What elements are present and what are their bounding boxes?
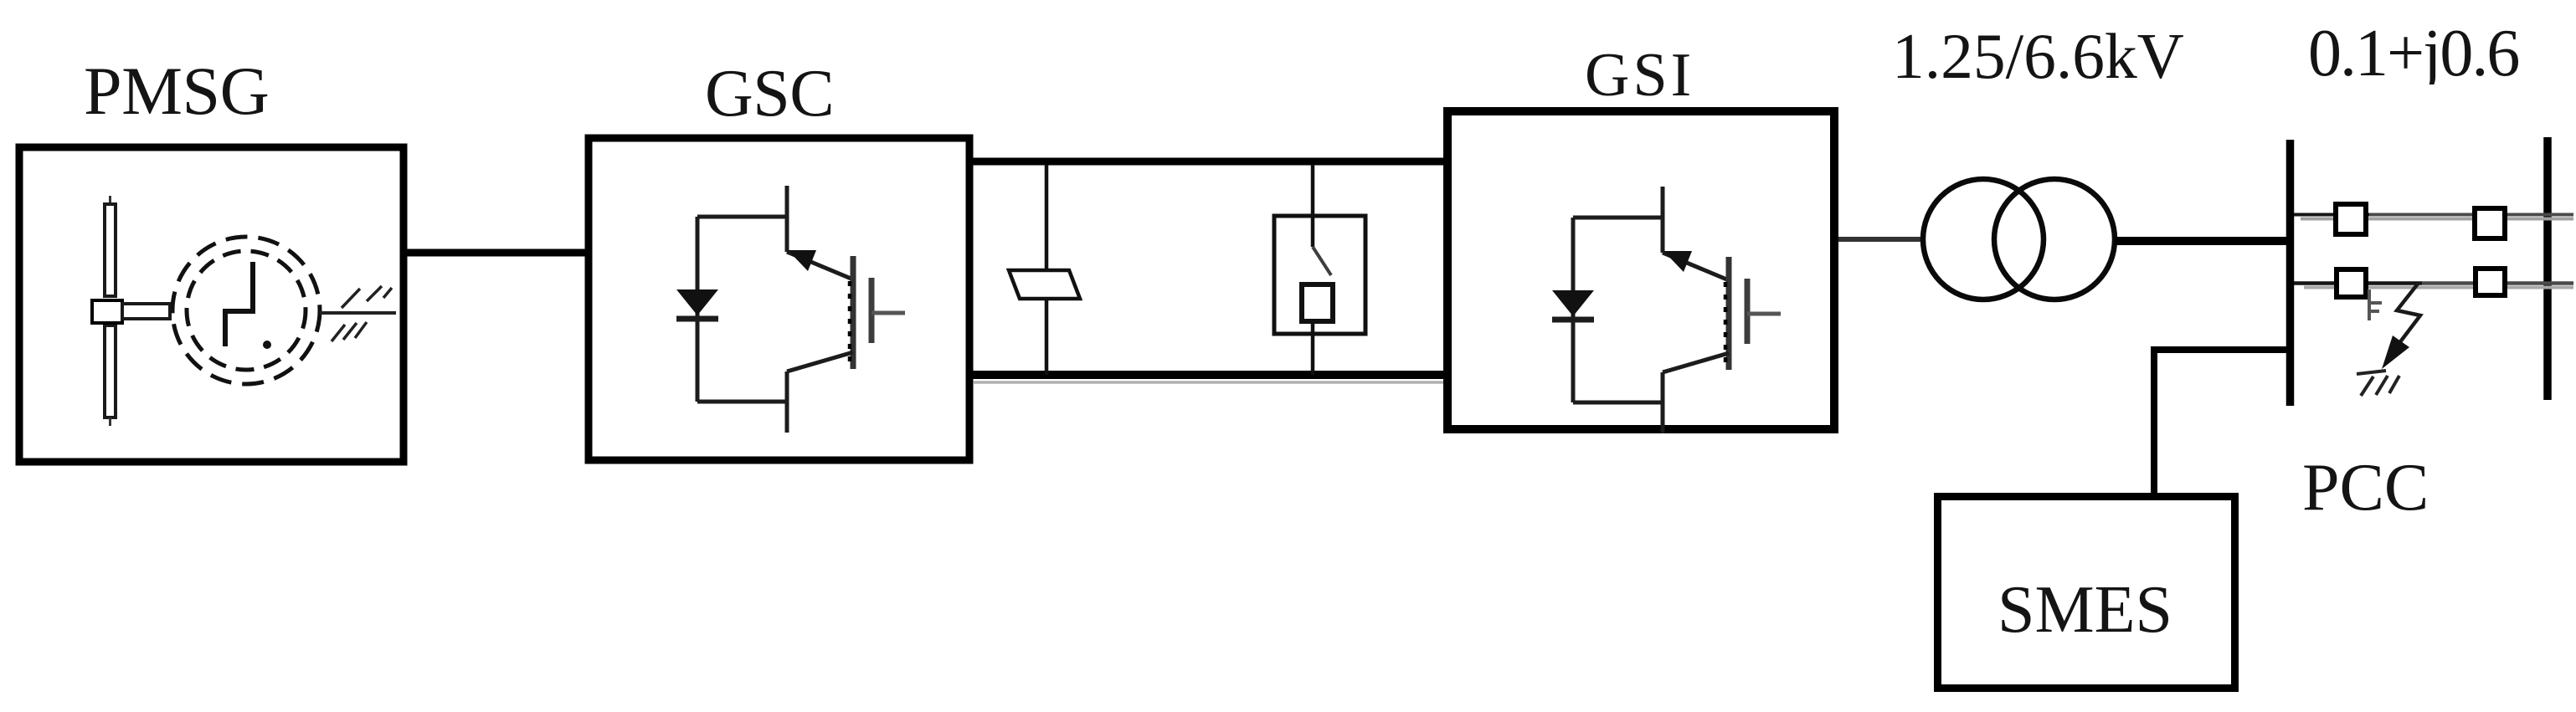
svg-text:SMES: SMES [1998,573,2172,647]
svg-text:PMSG: PMSG [84,53,269,129]
svg-text:GSC: GSC [705,57,834,131]
svg-text:0.1+j0.6: 0.1+j0.6 [2308,17,2518,90]
svg-text:PCC: PCC [2302,451,2429,525]
svg-text:1.25/6.6kV: 1.25/6.6kV [1892,20,2184,92]
svg-text:GSI: GSI [1585,41,1694,110]
